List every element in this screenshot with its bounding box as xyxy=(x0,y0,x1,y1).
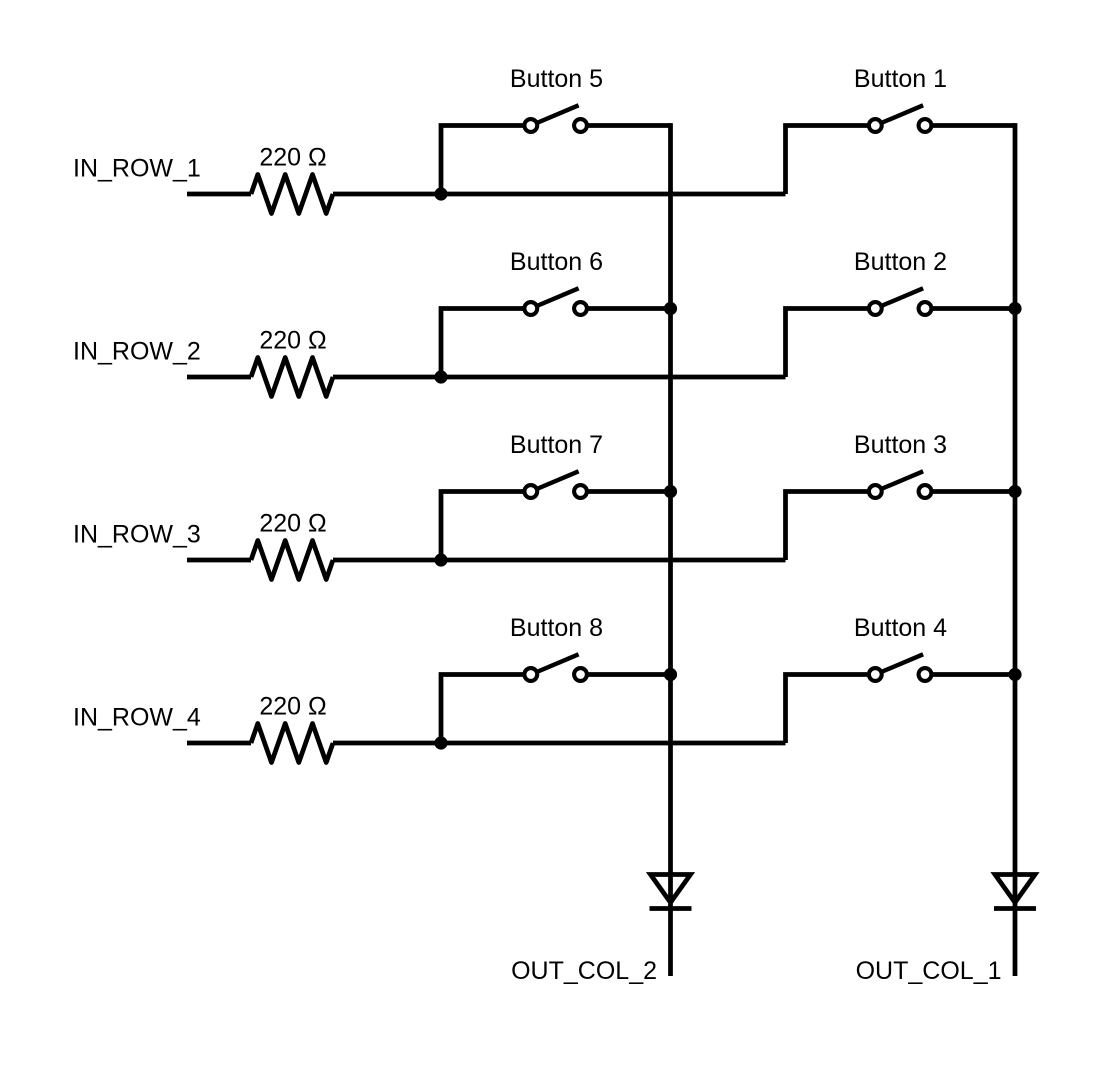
wire row 3 from R3 to Button 3 branch xyxy=(333,558,786,563)
svg-text:Button 3: Button 3 xyxy=(854,431,947,459)
wire column OUT_COL_2 xyxy=(668,123,673,976)
wire row 2 input lead xyxy=(187,375,251,380)
wire Button 7 branch riser xyxy=(441,492,531,561)
junction node OUT_COL_2 / button branch row 2 xyxy=(664,302,677,315)
wire Button 2 to OUT_COL_1 xyxy=(925,306,1015,311)
junction node OUT_COL_1 / button branch row 3 xyxy=(1008,485,1021,498)
svg-text:Button 5: Button 5 xyxy=(510,65,603,93)
wire row 4 input lead xyxy=(187,741,251,746)
wire Button 8 to OUT_COL_2 xyxy=(581,672,671,677)
junction node OUT_COL_2 / button branch row 3 xyxy=(664,485,677,498)
svg-text:220 Ω: 220 Ω xyxy=(259,144,326,172)
svg-text:Button 6: Button 6 xyxy=(510,248,603,276)
wire Button 5 branch riser xyxy=(441,126,531,195)
svg-text:Button 1: Button 1 xyxy=(854,65,947,93)
svg-text:IN_ROW_2: IN_ROW_2 xyxy=(73,338,201,366)
resistor R2 220 ohm xyxy=(251,358,333,397)
svg-text:IN_ROW_3: IN_ROW_3 xyxy=(73,521,201,549)
junction node OUT_COL_1 / button branch row 2 xyxy=(1008,302,1021,315)
junction node OUT_COL_1 / button branch row 4 xyxy=(1008,668,1021,681)
resistor R3 220 ohm xyxy=(251,541,333,580)
wire Button 3 branch riser xyxy=(786,492,876,561)
svg-text:220 Ω: 220 Ω xyxy=(259,510,326,538)
junction node row 1 / Button 5 branch xyxy=(434,187,447,200)
svg-text:Button 2: Button 2 xyxy=(854,248,947,276)
wire Button 2 branch riser xyxy=(786,309,876,378)
svg-text:220 Ω: 220 Ω xyxy=(259,327,326,355)
switch Button 4 xyxy=(869,654,932,681)
wire Button 8 branch riser xyxy=(441,675,531,744)
wire Button 5 to OUT_COL_2 xyxy=(581,123,671,128)
junction node row 3 / Button 7 branch xyxy=(434,553,447,566)
svg-text:OUT_COL_1: OUT_COL_1 xyxy=(856,957,1002,985)
resistor R1 220 ohm xyxy=(251,175,333,214)
diode D1 xyxy=(994,875,1036,909)
svg-text:OUT_COL_2: OUT_COL_2 xyxy=(511,957,657,985)
wire Button 3 to OUT_COL_1 xyxy=(925,489,1015,494)
svg-text:Button 7: Button 7 xyxy=(510,431,603,459)
switch Button 2 xyxy=(869,288,932,315)
wire Button 4 branch riser xyxy=(786,675,876,744)
wire row 2 from R2 to Button 2 branch xyxy=(333,375,786,380)
wire Button 7 to OUT_COL_2 xyxy=(581,489,671,494)
wire Button 4 to OUT_COL_1 xyxy=(925,672,1015,677)
svg-text:IN_ROW_1: IN_ROW_1 xyxy=(73,155,201,183)
switch Button 8 xyxy=(524,654,587,681)
wire row 1 input lead xyxy=(187,192,251,197)
wire Button 6 to OUT_COL_2 xyxy=(581,306,671,311)
wire Button 6 branch riser xyxy=(441,309,531,378)
switch Button 6 xyxy=(524,288,587,315)
svg-text:Button 8: Button 8 xyxy=(510,614,603,642)
switch Button 7 xyxy=(524,471,587,498)
wire Button 1 to OUT_COL_1 xyxy=(925,123,1015,128)
switch Button 5 xyxy=(524,105,587,132)
svg-text:220 Ω: 220 Ω xyxy=(259,693,326,721)
wire Button 1 branch riser xyxy=(786,126,876,195)
junction node OUT_COL_2 / button branch row 4 xyxy=(664,668,677,681)
diode D2 xyxy=(650,875,692,909)
junction node row 4 / Button 8 branch xyxy=(434,736,447,749)
wire row 1 from R1 to Button 1 branch xyxy=(333,192,786,197)
switch Button 1 xyxy=(869,105,932,132)
switch Button 3 xyxy=(869,471,932,498)
resistor R4 220 ohm xyxy=(251,724,333,763)
svg-text:Button 4: Button 4 xyxy=(854,614,947,642)
wire row 3 input lead xyxy=(187,558,251,563)
junction node row 2 / Button 6 branch xyxy=(434,370,447,383)
svg-text:IN_ROW_4: IN_ROW_4 xyxy=(73,704,201,732)
wire column OUT_COL_1 xyxy=(1013,123,1018,976)
wire row 4 from R4 to Button 4 branch xyxy=(333,741,786,746)
